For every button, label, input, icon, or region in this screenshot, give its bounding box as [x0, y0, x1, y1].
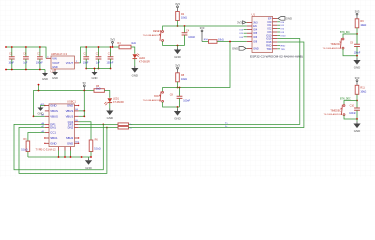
ground (USB shield)	[85, 158, 92, 170]
svg-text:TS-1088-AR02016: TS-1088-AR02016	[324, 113, 343, 116]
svg-text:BOOT: BOOT	[154, 95, 161, 98]
resistor R8 (D- series)	[118, 126, 129, 129]
wire R11 to node	[356, 94, 358, 100]
resistor R3 5.1k	[26, 141, 30, 152]
wire IO0 stub	[277, 21, 280, 23]
resistor R7 (D+ series)	[118, 123, 129, 126]
wire VBUS-B2	[79, 115, 85, 117]
wire 5V from VBUS	[34, 91, 95, 117]
SHELL pin	[64, 147, 66, 151]
resistor R11 10k	[355, 85, 359, 94]
wire TXD stub	[277, 48, 280, 50]
svg-text:DN1: DN1	[50, 126, 56, 130]
svg-text:GND: GND	[132, 74, 138, 78]
pin 3 VIN stub	[46, 57, 51, 59]
wire IO10 stub	[277, 34, 280, 36]
wire output gnd rail	[86, 68, 110, 70]
wire R10 to module IO9	[217, 41, 247, 43]
svg-text:R11: R11	[360, 87, 365, 90]
wire DN1 loop	[19, 128, 107, 174]
svg-text:GND: GND	[52, 66, 58, 69]
LED LED2 KT-0603R (3V3 power indicator)	[133, 54, 151, 64]
junction	[102, 124, 104, 126]
capacitor C8 100nF	[177, 88, 191, 108]
svg-text:3V3: 3V3	[355, 76, 360, 80]
junction	[94, 68, 96, 70]
svg-text:5.1kΩ: 5.1kΩ	[94, 148, 101, 151]
wire to TIMEDEC btn	[344, 101, 357, 105]
wire DN2 to R8	[79, 127, 118, 129]
junction	[356, 118, 358, 120]
svg-text:GND: GND	[85, 166, 91, 170]
junction	[106, 127, 108, 129]
svg-text:10kΩ: 10kΩ	[360, 24, 366, 27]
junction	[85, 68, 87, 70]
junction	[177, 45, 179, 47]
ground (RESET)	[174, 48, 181, 60]
capacitor C6 1uF	[23, 47, 29, 70]
wire VBUS-B up to 5V	[79, 91, 85, 111]
svg-text:VBUS: VBUS	[66, 114, 74, 118]
svg-text:RXD: RXD	[281, 45, 286, 47]
junction	[81, 156, 83, 158]
svg-text:GND: GND	[52, 76, 58, 80]
junction	[83, 110, 85, 112]
junction	[177, 87, 179, 89]
svg-text:3V3: 3V3	[175, 2, 180, 6]
wire VOUT to 3V3 rail	[79, 47, 119, 63]
GND port (U1 left)	[232, 47, 246, 51]
svg-text:VBUS: VBUS	[66, 109, 74, 113]
svg-text:10uF: 10uF	[83, 61, 89, 64]
svg-text:GND: GND	[107, 116, 113, 120]
resistor R6 5.1k	[89, 140, 93, 152]
junction	[98, 68, 100, 70]
junction	[112, 46, 114, 48]
junction	[5, 46, 7, 48]
wire IO4 stub	[244, 29, 247, 31]
svg-text:GND: GND	[253, 47, 259, 50]
svg-text:SBU1: SBU1	[50, 136, 58, 140]
junction	[83, 115, 85, 117]
wire CC2 to R6	[79, 122, 91, 140]
capacitor C5 10uF	[8, 47, 14, 70]
svg-text:IO9: IO9	[253, 41, 258, 44]
svg-text:D-: D-	[130, 128, 133, 130]
power flag 3V3 (module supply)	[237, 21, 246, 25]
junction	[177, 25, 179, 27]
ground (U2 GND pin)	[52, 71, 58, 80]
pushbutton SW4 TIMEDEC	[341, 105, 345, 116]
wire BOOT net to module	[178, 42, 231, 88]
svg-text:RESET: RESET	[153, 30, 162, 33]
svg-text:GND: GND	[174, 117, 180, 121]
svg-text:100nF: 100nF	[354, 53, 361, 55]
power flag 3V3 (TIMEDEC pullup)	[355, 76, 360, 85]
svg-text:100nF: 100nF	[183, 99, 190, 102]
svg-text:AMS1117-3.3: AMS1117-3.3	[51, 52, 68, 56]
svg-text:10uF: 10uF	[8, 61, 14, 64]
svg-text:100nF: 100nF	[107, 61, 114, 64]
USBC1 right pins	[74, 105, 78, 107]
pin 2 VOUT stub	[75, 62, 80, 64]
wire CC1 to R3	[28, 133, 45, 142]
pin 1 GND stub	[54, 69, 56, 71]
ground (LED2)	[131, 66, 138, 78]
wire IO2 stub	[277, 28, 280, 30]
wire gnd stub	[88, 157, 90, 158]
junction	[184, 25, 186, 27]
capacitor C7 100nF	[36, 47, 43, 70]
svg-text:5V: 5V	[83, 81, 86, 85]
microcontroller module U1 ESP32-C3-WROOM-02	[250, 13, 303, 59]
resistor R5 1k	[94, 89, 104, 93]
svg-text:GND: GND	[354, 129, 360, 133]
wire btn bottom	[163, 102, 180, 107]
wire to gnd	[177, 46, 179, 48]
svg-text:C10: C10	[350, 105, 355, 108]
svg-text:1kΩ: 1kΩ	[131, 42, 136, 45]
svg-text:GND: GND	[174, 55, 180, 59]
junction	[179, 87, 181, 89]
junction	[356, 100, 358, 102]
wire btn bottom	[344, 115, 357, 119]
junction	[25, 46, 27, 48]
junction	[5, 69, 7, 71]
USBC1 left pins	[45, 105, 49, 107]
junction	[39, 46, 41, 48]
resistor R4 1k	[119, 45, 131, 49]
resistor R8 10k	[176, 73, 180, 82]
wire usb gnd rail	[28, 156, 91, 158]
ground (output caps)	[92, 71, 98, 80]
ground (LED1)	[106, 109, 113, 121]
svg-text:3V3: 3V3	[237, 21, 242, 25]
wire R8 to node	[177, 82, 179, 88]
junction	[90, 156, 92, 158]
power flag 3V3 (TIMEINC pullup)	[355, 9, 360, 18]
svg-text:TS-1088-AR02016: TS-1088-AR02016	[323, 47, 342, 50]
node 5V stub end	[38, 84, 40, 86]
junction	[110, 68, 112, 70]
svg-text:3V3: 3V3	[253, 21, 258, 24]
svg-text:GND: GND	[67, 141, 73, 145]
junction	[177, 106, 179, 108]
svg-text:IO4: IO4	[253, 29, 258, 32]
wire	[70, 151, 72, 158]
svg-text:IO10: IO10	[281, 35, 287, 37]
junction	[39, 69, 41, 71]
svg-text:100nF: 100nF	[188, 36, 195, 39]
ground (input caps)	[42, 72, 48, 81]
svg-text:GND: GND	[42, 77, 48, 81]
LED LED1 KT-0603R (5V power indicator)	[104, 98, 124, 106]
junction	[356, 33, 358, 35]
wire VBUS join	[83, 111, 85, 116]
capacitor C4 100nF	[182, 26, 196, 46]
wire D+ to module IO19	[129, 39, 300, 125]
svg-text:GND: GND	[50, 141, 56, 145]
junction	[64, 156, 66, 158]
capacitor C10 100nF	[354, 101, 360, 120]
wire A12 gnd	[41, 106, 45, 107]
svg-text:U1: U1	[252, 13, 256, 17]
wire to gnd	[356, 119, 358, 122]
svg-text:3V3: 3V3	[175, 63, 180, 67]
ground (BOOT)	[174, 109, 181, 121]
wire	[64, 151, 66, 158]
wire IO6 stub	[244, 36, 247, 38]
svg-text:1uF: 1uF	[96, 61, 101, 64]
svg-text:10kΩ: 10kΩ	[360, 90, 366, 93]
ground (TIMEDEC)	[353, 122, 360, 134]
svg-text:TIMEDEC: TIMEDEC	[330, 109, 341, 112]
resistor R10 10k	[209, 40, 218, 44]
wire ep stub	[276, 17, 279, 19]
wire RXD stub	[277, 44, 280, 46]
power flag 3V3 (3V3 rail)	[110, 38, 115, 47]
SHELL pin	[58, 147, 60, 151]
junction	[85, 46, 87, 48]
wire 5V input rail	[6, 47, 46, 58]
svg-text:3V3: 3V3	[200, 26, 205, 30]
svg-text:3V3: 3V3	[355, 9, 360, 13]
svg-text:100nF: 100nF	[36, 61, 43, 64]
svg-text:CC1: CC1	[50, 131, 56, 135]
svg-text:5.1kΩ: 5.1kΩ	[21, 148, 28, 151]
wire stub	[38, 85, 40, 91]
svg-text:VBUS: VBUS	[50, 114, 58, 118]
wire R2 to node	[177, 21, 179, 27]
resistor R9 10k	[355, 19, 359, 28]
wire btn bottom	[343, 49, 357, 56]
junction	[58, 156, 60, 158]
wire gnd stub	[245, 47, 248, 49]
SHELL pin	[70, 147, 72, 151]
svg-text:IO6: IO6	[253, 36, 258, 39]
svg-text:GND: GND	[38, 111, 44, 115]
pushbutton SW2 BOOT	[159, 91, 163, 102]
ground (USB A12)	[38, 107, 44, 116]
svg-text:TS-1088-AR02016: TS-1088-AR02016	[143, 34, 162, 37]
U1 right pins	[273, 17, 278, 19]
svg-text:GND: GND	[67, 104, 73, 108]
svg-text:TXD: TXD	[267, 48, 272, 51]
wire EN net to module	[178, 25, 247, 27]
svg-text:EN: EN	[253, 25, 257, 28]
capacitor C9 100nF	[354, 34, 360, 56]
ground (TIMEINC)	[353, 58, 360, 70]
wire LED1 cathode	[109, 103, 111, 109]
wire	[58, 151, 60, 158]
junction	[38, 90, 40, 92]
svg-text:GND: GND	[232, 47, 238, 51]
svg-text:VBUS: VBUS	[50, 109, 58, 113]
power flag 5V (VBUS net)	[83, 81, 86, 90]
junction	[70, 156, 72, 158]
svg-text:1uF: 1uF	[23, 61, 28, 64]
wire R3 to gnd rail	[27, 152, 29, 158]
junction	[229, 41, 231, 43]
wire to TIMEINC btn	[343, 34, 357, 38]
svg-text:D-: D-	[225, 126, 228, 128]
svg-text:10kΩ: 10kΩ	[218, 38, 224, 41]
wire IO1 stub	[277, 24, 280, 26]
pushbutton SW3 TIMEINC	[340, 38, 344, 49]
wire LED2 cathode	[134, 59, 136, 66]
junction	[33, 115, 35, 117]
svg-text:10kΩ: 10kΩ	[181, 17, 187, 20]
voltage regulator U2 AMS1117-3.3	[51, 52, 75, 74]
junction	[110, 46, 112, 48]
svg-text:ESP32-C3-WROOM-02-N4(HAI-AWB): ESP32-C3-WROOM-02-N4(HAI-AWB)	[250, 55, 303, 59]
svg-text:VIN: VIN	[52, 56, 56, 60]
GND port (U1 EP)	[278, 17, 292, 21]
wire IO3 stub	[277, 31, 280, 33]
wire input gnd rail	[6, 69, 45, 71]
wire 3V3 stub	[245, 21, 248, 23]
svg-text:DN2: DN2	[68, 126, 74, 130]
U1 left pins	[247, 21, 252, 23]
wire to BOOT btn	[163, 88, 178, 92]
junction	[356, 55, 358, 57]
wire to gnd	[94, 69, 96, 72]
wire btn bottom	[163, 41, 185, 45]
svg-text:KT-0603R: KT-0603R	[113, 101, 124, 104]
wire R4 to LED2	[131, 47, 135, 54]
svg-text:TYPE-C-31-M-12: TYPE-C-31-M-12	[36, 148, 57, 152]
junction	[11, 69, 13, 71]
junction	[83, 90, 85, 92]
svg-text:TXD: TXD	[281, 49, 286, 51]
svg-text:KT-0603R: KT-0603R	[139, 60, 150, 63]
svg-text:GND: GND	[50, 104, 56, 108]
svg-text:SBU2: SBU2	[66, 136, 74, 140]
wire DP1 loop	[14, 124, 103, 169]
wire flag to R10	[202, 41, 209, 43]
wire to gnd	[44, 70, 46, 73]
svg-text:IO5: IO5	[253, 32, 258, 35]
wire R6 to gnd rail	[90, 152, 92, 158]
svg-text:GND: GND	[92, 76, 98, 80]
svg-text:10kΩ: 10kΩ	[181, 78, 187, 81]
svg-text:3V3: 3V3	[110, 38, 115, 42]
power flag 3V3 (R10 pullup)	[200, 26, 205, 41]
wire R5 to LED1	[104, 91, 109, 98]
svg-text:VOUT: VOUT	[66, 61, 74, 65]
resistor R2 10k	[176, 12, 180, 21]
power flag 3V3 (BOOT pullup)	[175, 63, 180, 72]
capacitor C2 1uF	[96, 47, 102, 69]
power flag 3V3 (RESET pullup)	[175, 2, 180, 11]
wire DP2 to R7	[79, 123, 118, 125]
pushbutton SW1 RESET	[159, 31, 163, 42]
wire VBUS-A	[34, 115, 45, 117]
wire to gnd	[177, 107, 179, 109]
svg-text:TIMEINC: TIMEINC	[330, 43, 340, 46]
junction	[25, 69, 27, 71]
junction	[11, 46, 13, 48]
capacitor C1 10uF	[83, 47, 89, 69]
wire to RESET btn	[163, 26, 178, 31]
wire IO5 stub	[244, 32, 247, 34]
wire to gnd	[356, 56, 358, 58]
svg-text:VOUT: VOUT	[52, 61, 60, 65]
wire R9 to node	[356, 28, 358, 34]
wire D- to module IO18	[129, 42, 304, 128]
svg-text:1kΩ: 1kΩ	[96, 87, 101, 90]
USB-C connector USBC1 TYPE-C-31-M-12	[36, 100, 77, 152]
capacitor C3 100nF	[107, 47, 114, 69]
svg-text:100nF: 100nF	[349, 113, 356, 115]
svg-text:GND: GND	[286, 17, 292, 21]
junction	[98, 46, 100, 48]
svg-text:GND: GND	[354, 66, 360, 70]
svg-text:TS-1088-AR02016: TS-1088-AR02016	[143, 99, 162, 102]
